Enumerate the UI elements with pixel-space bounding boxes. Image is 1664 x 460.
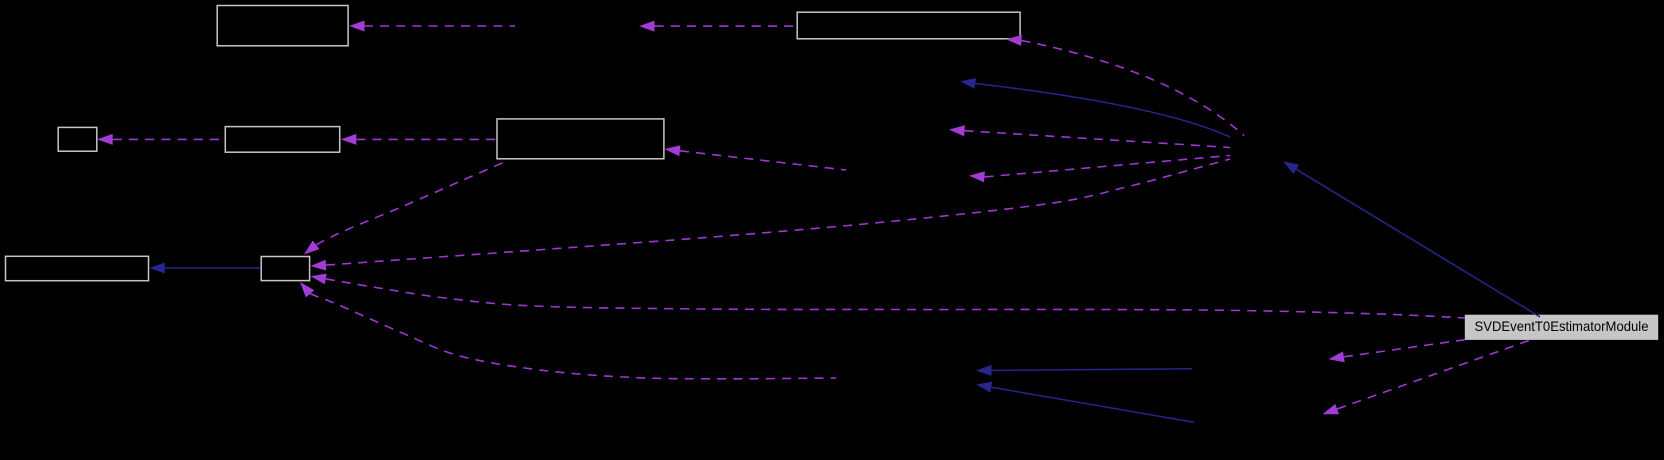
- edge E6 dashed (hub F1 to hidden node Nb): [965, 131, 1231, 148]
- arrowhead SVDtoB7 at B7: [311, 274, 327, 285]
- node B5 (empty class box, middle): [497, 119, 664, 159]
- edge E3 dashed (B5 to B4): [356, 138, 496, 140]
- edge SVDtoNi dashed: [1344, 340, 1465, 357]
- arrowhead blue at B6: [149, 263, 165, 274]
- arrowhead E4 at B3: [97, 134, 113, 145]
- arrowhead NeToB7 at B7 bottom corner: [300, 282, 314, 297]
- edge E4 dashed (B4 to B3): [113, 138, 225, 140]
- node B2 (empty class box, top middle): [797, 12, 1020, 39]
- edge NeToB7 dashed curve (hidden node Ne to B7 bottom corner): [310, 294, 836, 379]
- arrowhead E6 at Nb: [949, 125, 965, 136]
- arrowhead SVDtoNj: [1323, 404, 1340, 414]
- edge E8 long dashed curve (hub F1 to B7 right edge): [326, 159, 1230, 265]
- edge B5toB7 dashed curve: [316, 161, 508, 245]
- edge blue NdToNe solid: [992, 369, 1193, 371]
- arrowhead E8 at B7: [311, 260, 327, 271]
- arrowhead blue at Na: [960, 78, 976, 89]
- edge SVDtoNj dashed: [1337, 339, 1532, 409]
- node B7 (small empty box, bottom left hub): [261, 257, 309, 281]
- arrowhead E7 at Nh: [969, 171, 985, 182]
- arrowhead SVDtoNi: [1329, 351, 1345, 362]
- edge E7 dashed (hub F1 to hidden node Nh): [985, 156, 1231, 177]
- node B4 (empty box, mid left): [225, 127, 339, 153]
- edge E2 dashed (B2 to hidden node): [655, 25, 797, 27]
- edge blue SVDtoF1 solid: [1296, 169, 1540, 317]
- node B3 (small empty box, mid left): [58, 127, 97, 151]
- arrowhead blue at Ne: [976, 365, 992, 376]
- arrowhead B5toB7 at B7 top corner: [304, 241, 320, 255]
- arrowhead E5 at B2 corner: [1006, 35, 1022, 46]
- arrowhead E3 at B4: [341, 134, 357, 145]
- node B1 (empty class box, top left): [217, 6, 348, 46]
- edge E9 dashed (hidden node to B5 right edge): [680, 151, 846, 170]
- edge blue NfToNe solid: [991, 387, 1194, 422]
- arrowhead blue at F1: [1283, 161, 1299, 174]
- edge blue F1toNa solid curve: [975, 84, 1230, 138]
- edge E1 dashed (hidden node to B1): [364, 25, 515, 27]
- arrowhead E9 at B5: [665, 145, 681, 156]
- node B6 (empty box, bottom left): [6, 256, 149, 280]
- edge E5 dashed curve (hub F1 to B2 bottom-right corner): [1021, 41, 1244, 136]
- arrowhead E2 at hidden node: [639, 21, 655, 32]
- arrowhead blue at Ne lower: [976, 382, 992, 393]
- svg-text:SVDEventT0EstimatorModule: SVDEventT0EstimatorModule: [1475, 318, 1649, 334]
- node SVDEventT0EstimatorModule (gray filled, labeled): [1466, 315, 1658, 339]
- edge SVDtoB7 long dashed curve: [326, 279, 1465, 318]
- edge blue B7toB6 solid: [165, 267, 261, 269]
- arrowhead E1 at B1: [349, 21, 365, 32]
